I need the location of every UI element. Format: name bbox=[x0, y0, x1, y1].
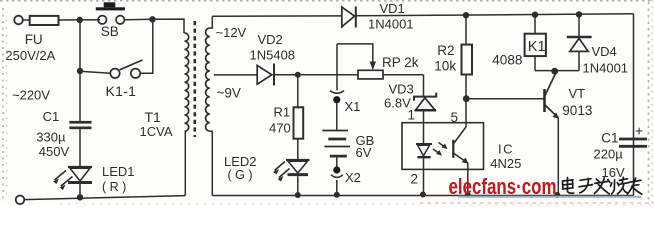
svg-text:RP 2k: RP 2k bbox=[382, 55, 419, 70]
relay contact K1-1 bbox=[77, 68, 83, 74]
svg-text:1N4001: 1N4001 bbox=[368, 17, 414, 32]
wire bottom rail bbox=[212, 195, 633, 197]
pin 5 wire bbox=[465, 99, 467, 128]
LED LED1 bbox=[68, 166, 92, 168]
wire secondary bottom bbox=[210, 131, 213, 195]
svg-text:~12V: ~12V bbox=[216, 25, 247, 40]
svg-text:SB: SB bbox=[101, 24, 119, 39]
diode VD4 bbox=[576, 11, 582, 17]
wire bbox=[124, 18, 152, 21]
transformer core bbox=[194, 21, 197, 137]
svg-text:elecfans·com: elecfans·com bbox=[449, 174, 557, 199]
wire base bbox=[466, 98, 543, 100]
resistor R2 bbox=[463, 12, 469, 18]
resistor R1 bbox=[297, 75, 299, 108]
svg-text:4088: 4088 bbox=[492, 52, 522, 67]
svg-text:K1-1: K1-1 bbox=[106, 83, 137, 99]
wire top rail bbox=[212, 15, 341, 17]
wire 9V tap bbox=[214, 74, 257, 76]
wire bbox=[297, 176, 299, 195]
svg-text:LED1: LED1 bbox=[102, 164, 135, 179]
svg-text:470: 470 bbox=[269, 121, 291, 136]
pin 4 wire bbox=[467, 163, 469, 195]
opto phototransistor bbox=[452, 140, 454, 158]
relay coil K1 bbox=[532, 12, 538, 18]
collector node bbox=[551, 68, 558, 75]
svg-text:R1: R1 bbox=[274, 105, 291, 120]
svg-text:K1: K1 bbox=[528, 39, 546, 55]
svg-text:VD1: VD1 bbox=[380, 1, 405, 16]
svg-text:450V: 450V bbox=[39, 144, 70, 159]
svg-text:LED2: LED2 bbox=[224, 154, 257, 169]
capacitor C1 bbox=[69, 121, 91, 124]
transformer T1 secondary winding bbox=[206, 28, 210, 131]
svg-text:6V: 6V bbox=[356, 145, 372, 160]
node junction A bbox=[77, 17, 83, 23]
svg-text:C1: C1 bbox=[601, 131, 618, 146]
wire bbox=[23, 19, 30, 21]
svg-text:1: 1 bbox=[408, 108, 416, 123]
svg-text:X1: X1 bbox=[345, 99, 361, 114]
wire bbox=[153, 19, 185, 33]
capacitor C1 output bbox=[619, 138, 647, 141]
opto LED bbox=[416, 143, 432, 145]
watermark chinese characters bbox=[563, 177, 642, 194]
wire bottom-left rail bbox=[24, 196, 185, 200]
svg-text:VT: VT bbox=[569, 86, 586, 101]
pin 2 wire bbox=[423, 169, 425, 195]
fuse FU bbox=[30, 16, 59, 25]
transformer T1 primary winding bbox=[185, 33, 189, 131]
pushbutton SB bbox=[98, 16, 106, 24]
svg-text:~220V: ~220V bbox=[12, 88, 50, 103]
svg-text:1CVA: 1CVA bbox=[140, 124, 173, 139]
wire bbox=[59, 19, 101, 21]
wire bbox=[274, 74, 298, 76]
wire bbox=[79, 129, 81, 166]
svg-text:R2: R2 bbox=[437, 43, 454, 58]
svg-text:4N25: 4N25 bbox=[490, 156, 521, 171]
diode VD2 bbox=[257, 65, 272, 84]
connector X1 bbox=[336, 44, 338, 90]
watermark underline bbox=[458, 196, 642, 198]
svg-text:250V/2A: 250V/2A bbox=[5, 48, 55, 63]
svg-text:220µ: 220µ bbox=[594, 147, 624, 162]
terminal top-left bbox=[14, 16, 23, 25]
svg-text:IC: IC bbox=[498, 142, 514, 157]
LED LED2 bbox=[286, 159, 310, 161]
terminal bottom-left bbox=[16, 196, 25, 205]
wire bbox=[79, 184, 81, 199]
svg-text:1N5408: 1N5408 bbox=[250, 47, 296, 62]
svg-text:( R ): ( R ) bbox=[102, 180, 126, 194]
svg-text:C1: C1 bbox=[43, 109, 60, 124]
opto light arrows bbox=[439, 143, 446, 148]
svg-text:1N4001: 1N4001 bbox=[583, 61, 629, 76]
svg-text:2: 2 bbox=[411, 172, 419, 187]
wire right rail bbox=[633, 14, 635, 196]
svg-text:~9V: ~9V bbox=[217, 86, 241, 101]
svg-text:X2: X2 bbox=[345, 170, 361, 185]
zener VD3 bbox=[423, 75, 425, 97]
wire left rail bbox=[79, 20, 81, 121]
pin 1 wire bbox=[423, 111, 425, 143]
diode VD1 bbox=[342, 7, 355, 27]
svg-text:FU: FU bbox=[25, 32, 43, 47]
node VD2 output junction bbox=[295, 72, 301, 78]
svg-text:VD3: VD3 bbox=[389, 82, 414, 97]
node LED2-bottom junction bbox=[295, 192, 301, 198]
svg-text:T1: T1 bbox=[145, 109, 162, 125]
potentiometer RP bbox=[301, 74, 358, 76]
svg-text:9013: 9013 bbox=[562, 103, 592, 118]
svg-text:+: + bbox=[635, 123, 643, 139]
wire bbox=[184, 131, 186, 196]
svg-text:VD4: VD4 bbox=[592, 44, 617, 59]
node junction B bbox=[149, 16, 155, 22]
svg-text:VD2: VD2 bbox=[258, 32, 283, 47]
svg-text:5: 5 bbox=[451, 110, 459, 125]
battery GB bbox=[322, 130, 348, 132]
connector X2 bbox=[336, 158, 338, 168]
emitter wire bbox=[557, 118, 559, 196]
svg-text:330µ: 330µ bbox=[36, 130, 66, 145]
svg-text:( G ): ( G ) bbox=[228, 168, 253, 182]
wire secondary top tap bbox=[210, 16, 213, 28]
node LED1-bottom junction bbox=[77, 194, 83, 200]
optocoupler IC 4N25 bbox=[402, 123, 484, 170]
svg-text:10k: 10k bbox=[434, 58, 456, 73]
transistor VT bbox=[543, 89, 546, 112]
